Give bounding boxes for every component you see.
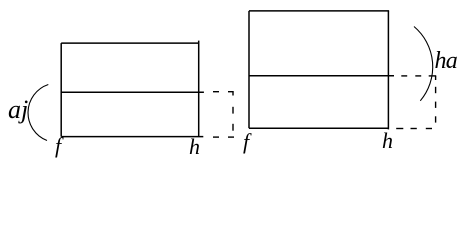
- left rectangle left edge: [60, 43, 62, 137]
- left dashed extension right side: [232, 91, 234, 131]
- left rectangle top edge: [61, 42, 199, 44]
- label aj: [8, 97, 28, 123]
- left rectangle middle line: [61, 91, 204, 93]
- label ha: [435, 49, 458, 73]
- brace arc for ha: [414, 27, 433, 101]
- left rectangle bottom edge: [61, 136, 203, 138]
- right dashed extension bottom: [396, 128, 432, 130]
- right dashed extension top: [401, 75, 436, 77]
- label f (right): [243, 131, 249, 153]
- left rectangle right edge: [198, 41, 200, 137]
- right rectangle middle line: [249, 75, 394, 77]
- right rectangle bottom edge: [249, 127, 389, 129]
- label h (right): [382, 130, 393, 152]
- right rectangle right edge: [387, 11, 389, 129]
- brace arc for aj: [28, 85, 48, 141]
- label f (left): [55, 135, 61, 157]
- right dashed extension right side: [435, 76, 437, 123]
- left dashed extension bottom: [213, 136, 234, 138]
- right rectangle left edge: [248, 11, 250, 128]
- label h (left): [189, 136, 200, 158]
- right rectangle top edge: [249, 10, 389, 12]
- left dashed extension top: [213, 91, 234, 93]
